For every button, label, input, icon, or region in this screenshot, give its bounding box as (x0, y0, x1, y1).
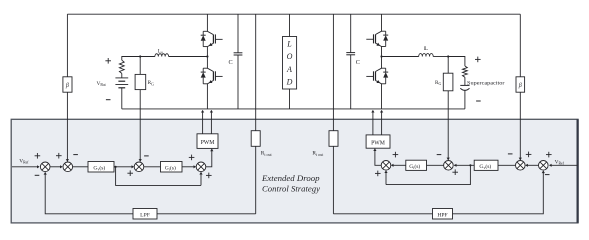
wire Ri-right down (332, 146, 334, 214)
wire feedforward up into S4r (384, 170, 387, 184)
wire RG-right down to summer S3r (447, 91, 450, 160)
wire RG-right top (447, 57, 449, 74)
inductor L-left (155, 54, 169, 57)
wire bus tie down to Ri-left (255, 109, 257, 131)
wire Q3 collector (381, 14, 383, 31)
control strategy panel (11, 119, 578, 223)
wire PWM gate drive 1 (201, 110, 204, 134)
wire PWM gate drive 2 (210, 110, 213, 134)
wire capacitor C-right top (350, 14, 352, 52)
battery VBat plates (115, 78, 128, 88)
block PWM-right (366, 135, 390, 148)
label RG-right (435, 80, 441, 86)
label - supercap negative (476, 100, 481, 102)
label Extended Droop Control Strategy (261, 173, 320, 193)
svg-text:LPF: LPF (140, 212, 150, 218)
resistor box Ri-left (251, 131, 260, 147)
wire S2r to Gv-r (498, 164, 515, 166)
summer S1-right (539, 161, 549, 171)
label Ri out right (312, 151, 324, 157)
wire Gi to S4 (182, 165, 196, 168)
label + S3 (127, 170, 133, 176)
wire LOAD bottom (289, 89, 291, 109)
svg-text:Gv(s): Gv(s) (93, 164, 105, 171)
node bridge midpoint left (206, 55, 208, 57)
sensor gain box B1 (beta) (63, 77, 72, 92)
svg-text:A: A (286, 65, 292, 74)
wire PWM-r gate drive 2 (380, 110, 383, 135)
label VRef-right (555, 159, 565, 165)
svg-text:D: D (286, 77, 293, 86)
wire S3r to Gi-r (427, 164, 444, 166)
svg-text:Extended Droop: Extended Droop (261, 173, 320, 183)
transistor Q1 (IGBT with diode) (201, 31, 223, 46)
wire capacitor C-left top (237, 14, 239, 53)
wire beta-right to summer S2r (519, 92, 522, 160)
label - S1 (35, 174, 40, 176)
capacitor C-left plates (234, 53, 243, 55)
summer S3-right (444, 161, 454, 171)
wire RG-left down to summer S3 (139, 90, 142, 162)
summer S4-left (196, 162, 206, 172)
LOAD box (283, 37, 297, 90)
svg-text:C: C (229, 59, 233, 66)
wire RG-left top (139, 57, 141, 75)
label - S2 (73, 154, 78, 156)
wire battery negative to rail (121, 88, 123, 109)
wire inductor to bridge node (169, 56, 208, 58)
wire Q2 emitter to rail (206, 84, 208, 109)
block Gi(s)-left (161, 162, 183, 173)
wire (464, 77, 466, 85)
label + S4 upper (189, 155, 195, 161)
resistor supercap internal (463, 66, 468, 77)
supercapacitor plates (460, 85, 469, 90)
svg-text:HPF: HPF (437, 212, 447, 218)
transistor Q4 (IGBT with diode) (366, 68, 388, 84)
label Supercapacitor (467, 81, 505, 86)
label - S1r (545, 174, 550, 176)
svg-text:Supercapacitor: Supercapacitor (467, 81, 505, 86)
label Ri out left (261, 151, 273, 157)
resistor box RG-right (443, 73, 453, 91)
label + S2r (526, 152, 532, 158)
wire S4 to PWM (206, 149, 214, 167)
block PWM-left (197, 134, 218, 149)
svg-text:Ri out: Ri out (312, 151, 324, 157)
label RG-left (148, 80, 154, 86)
wire bridge node to inductor (382, 56, 419, 58)
summer S4-right (381, 161, 391, 171)
summer S2-left (63, 162, 73, 172)
wire top DC bus rail (67, 13, 520, 15)
wire S4r to PWM-r (373, 148, 381, 165)
node bridge midpoint right (380, 55, 382, 57)
wire Q1 emitter to node (206, 47, 208, 57)
svg-text:L: L (424, 46, 428, 52)
wire bus tie down to Ri-right (332, 109, 334, 131)
wire node to Q4 collector (381, 57, 383, 69)
label VRef-left (19, 158, 29, 164)
wire beta-right top segment (519, 14, 521, 77)
label - S3 (144, 155, 149, 157)
wire bus tie right (332, 14, 334, 109)
wire supercap bottom to rail (464, 90, 466, 109)
resistor box Ri-right (329, 131, 338, 147)
wire feedforward left (116, 167, 201, 186)
svg-text:β: β (518, 83, 522, 89)
transistor Q2 (IGBT with diode) (201, 68, 223, 84)
wire bus tie left (255, 14, 257, 109)
wire node to Q2 collector (206, 57, 208, 69)
svg-text:Ri out: Ri out (261, 151, 273, 157)
label + S4 lower (206, 173, 212, 179)
label + S4r upper (393, 152, 399, 158)
wire Gv-r to S3r with feedforward tap (454, 164, 474, 167)
wire battery top to node (122, 56, 155, 58)
label + S4r lower (375, 171, 381, 177)
label + S2 (56, 153, 62, 159)
block Gv(s)-left (88, 162, 114, 173)
wire VRef input (12, 165, 40, 168)
wire S3 to Gi (144, 166, 161, 168)
svg-text:Gv(s): Gv(s) (479, 163, 491, 170)
svg-text:C: C (356, 59, 360, 66)
label + supercap positive (475, 57, 481, 63)
transistor Q3 (IGBT with diode) (366, 31, 388, 46)
label L-right (424, 46, 428, 52)
wire LOAD top (289, 14, 291, 36)
wire S2 to Gv (73, 166, 88, 168)
label VBat (97, 81, 107, 87)
svg-text:O: O (287, 52, 293, 61)
label - S2r (508, 153, 513, 155)
block Gv(s)-right (474, 160, 498, 170)
wire Gi-r to S4r (391, 164, 406, 167)
label C-right (356, 59, 360, 66)
svg-text:PWM: PWM (201, 140, 215, 146)
svg-text:Gi(s): Gi(s) (165, 164, 176, 171)
svg-text:Control Strategy: Control Strategy (262, 183, 320, 193)
wire VRef input right (549, 164, 578, 167)
label + battery positive (105, 58, 111, 64)
svg-text:PWM: PWM (371, 141, 385, 147)
wire beta-left top segment (66, 14, 68, 77)
wire to supercap corner (448, 57, 465, 67)
capacitor C-right plates (346, 53, 355, 55)
wire capacitor C-left bottom (237, 55, 239, 109)
summer S2-right (516, 161, 526, 171)
label + S1 (35, 153, 41, 159)
label - battery negative (106, 99, 111, 101)
wire Q1 collector (206, 14, 208, 31)
wire LPF feedback line (44, 172, 256, 214)
resistor box RG-left (135, 74, 146, 89)
block HPF (433, 209, 453, 220)
resistor battery internal (119, 60, 124, 73)
label C-left (229, 59, 233, 66)
wire HPF feedback line (333, 171, 545, 214)
wire capacitor C-right bottom (350, 55, 352, 109)
label + S1r (546, 152, 552, 158)
wire S1r to S2r (525, 164, 538, 167)
label + S3r (452, 169, 458, 175)
wire PWM-r gate drive 1 (371, 110, 374, 135)
node battery-RG junction (139, 55, 141, 57)
wire Gv to S3 with feedforward tap (114, 165, 134, 168)
summer S3-left (134, 162, 144, 172)
wire Ri-left down (255, 146, 257, 214)
svg-text:β: β (65, 83, 69, 89)
wire inductor to RG node (433, 56, 448, 58)
block LPF (133, 209, 157, 220)
wire Q4 emitter to rail (381, 84, 383, 109)
wire bottom DC rail (122, 108, 465, 110)
node RG-right junction (447, 55, 449, 57)
wire battery top (121, 56, 123, 60)
wire feedforward right (386, 165, 470, 184)
svg-text:L: L (286, 40, 292, 49)
inductor L-right (419, 54, 434, 57)
wire beta-left to summer S2 (66, 92, 69, 162)
wire Q3 emitter to node (381, 47, 383, 57)
svg-text:Gi(s): Gi(s) (409, 163, 420, 170)
block Gi(s)-right (406, 160, 427, 170)
wire S1 to S2 (50, 165, 63, 168)
wire feedforward up into S4 (199, 172, 202, 186)
label L-left (158, 48, 163, 54)
label - S3r (437, 154, 442, 156)
sensor gain box B2 (beta) (516, 77, 525, 92)
wire (121, 73, 123, 77)
summer S1-left (40, 162, 50, 172)
